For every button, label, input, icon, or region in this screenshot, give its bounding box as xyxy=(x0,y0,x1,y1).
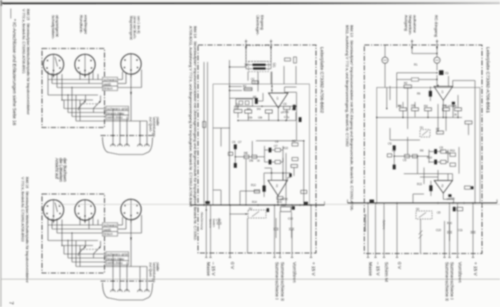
svg-text:+ 15 V: + 15 V xyxy=(473,262,478,277)
capacitor C5 xyxy=(255,98,258,104)
stage2 coupling rows xyxy=(387,142,459,174)
svg-text:15k: 15k xyxy=(249,159,254,163)
footnote rule xyxy=(10,9,12,19)
svg-text:braun: braun xyxy=(104,87,113,91)
svg-text:C3: C3 xyxy=(234,106,238,110)
svg-text:aufnahme: aufnahme xyxy=(413,15,418,34)
svg-text:R10: R10 xyxy=(283,146,288,150)
op-amp N2 xyxy=(265,168,292,206)
R12 feedback xyxy=(263,186,266,192)
R13 feedback xyxy=(429,185,432,191)
svg-text:R7: R7 xyxy=(436,127,440,131)
scan top edge line xyxy=(0,2,500,4)
svg-text:R12: R12 xyxy=(251,183,256,187)
svg-text:C13: C13 xyxy=(288,217,293,221)
internal screen partition xyxy=(229,60,231,205)
row below opamp2 xyxy=(254,190,260,193)
feedback loop N2 wire xyxy=(404,173,453,175)
svg-text:R2: R2 xyxy=(243,84,247,88)
svg-text:C7: C7 xyxy=(440,149,444,153)
svg-text:R8: R8 xyxy=(244,151,248,155)
svg-text:C5: C5 xyxy=(392,149,396,153)
svg-text:R11: R11 xyxy=(446,151,451,155)
svg-text:R16: R16 xyxy=(447,221,452,225)
svg-text:C1: C1 xyxy=(445,71,449,75)
svg-text:B511, Ausführung V 772 a, und: B511, Ausführung V 772 a, und Begrenzere… xyxy=(345,25,350,147)
scan fold line xyxy=(0,278,500,280)
svg-text:schwarz: schwarz xyxy=(104,78,117,82)
svg-text:Leiterplatte C73392-A706-B561: Leiterplatte C73392-A706-B561 xyxy=(485,47,490,113)
misc extras xyxy=(376,63,463,233)
misc stage1 extras xyxy=(213,72,296,222)
svg-text:Summenschiene II: Summenschiene II xyxy=(280,262,285,301)
top terminal labels xyxy=(404,15,439,37)
svg-text:R6: R6 xyxy=(292,108,296,112)
svg-text:10k: 10k xyxy=(258,115,263,119)
svg-text:1: 1 xyxy=(277,97,279,101)
svg-text:R10: R10 xyxy=(427,156,432,160)
C1 input cap xyxy=(437,70,449,86)
svg-text:C6: C6 xyxy=(403,158,407,162)
svg-text:+ 15 V: + 15 V xyxy=(311,262,316,277)
svg-text:Ü1: Ü1 xyxy=(272,63,276,67)
resistor R1 xyxy=(285,58,291,61)
terminal drops xyxy=(367,200,475,258)
svg-text:verbindungs-: verbindungs- xyxy=(152,117,156,139)
left rail xyxy=(203,62,205,205)
svg-text:abspielgerät: abspielgerät xyxy=(55,15,60,38)
scan left edge xyxy=(0,0,2,307)
svg-text:0 V: 0 V xyxy=(397,262,402,270)
wires Bild 15 xyxy=(48,70,142,122)
svg-text:2: 2 xyxy=(276,184,278,188)
0V rail xyxy=(348,200,498,204)
svg-text:Summenschiene I: Summenschiene I xyxy=(275,262,280,300)
terminal drops xyxy=(205,201,312,257)
mid rail xyxy=(397,72,437,74)
svg-text:C8: C8 xyxy=(275,140,279,144)
svg-text:Schirm M: Schirm M xyxy=(384,262,389,282)
svg-text:22k: 22k xyxy=(248,115,253,119)
svg-text:empfänger: empfänger xyxy=(84,15,89,35)
inner shield rectangle xyxy=(377,88,480,204)
op-amp N1 xyxy=(269,72,297,141)
svg-text:µA709: µA709 xyxy=(447,197,455,201)
svg-text:R6: R6 xyxy=(417,92,421,96)
stage1 vertical feeds xyxy=(257,72,259,92)
wire bus stage1 xyxy=(377,117,462,119)
svg-text:Schallplatten-: Schallplatten- xyxy=(51,15,56,40)
dash-dot border box Bild 14 xyxy=(198,45,316,253)
terminals with arrows xyxy=(411,40,439,57)
svg-text:Bild 15 Stromlaufplan Wahlsc: Bild 15 Stromlaufplan Wahlschalterplatte… xyxy=(26,9,30,115)
svg-text:R13: R13 xyxy=(417,182,422,186)
svg-text:RC-Eingang: RC-Eingang xyxy=(434,15,439,37)
R6 feedback xyxy=(429,91,432,97)
svg-text:A706-B311, Ausführung V 772 b,: A706-B311, Ausführung V 772 b, und Begre… xyxy=(189,26,194,208)
stage1 component row xyxy=(234,102,302,122)
svg-text:0 V: 0 V xyxy=(230,262,235,270)
svg-text:Bild 16 Stromlaufplan Wahlsc: Bild 16 Stromlaufplan Wahlschalterplatte… xyxy=(25,177,29,283)
svg-text:2: 2 xyxy=(442,184,444,188)
reuse of Bild15 core shifted down xyxy=(42,194,160,300)
input wires with arrows xyxy=(245,40,273,65)
labels above sockets xyxy=(51,15,141,40)
capacitor C4 xyxy=(294,57,297,63)
svg-text:R14: R14 xyxy=(252,200,257,204)
svg-text:S2: S2 xyxy=(416,207,420,211)
0V rail xyxy=(191,202,325,206)
terminal labels xyxy=(368,262,478,301)
svg-text:V 772 b, Bestell-Nr. C73392-A7: V 772 b, Bestell-Nr. C73392-A706-B922 xyxy=(20,177,24,242)
svg-text:R3: R3 xyxy=(247,107,251,111)
resistor R11 xyxy=(291,165,298,168)
input jack circle xyxy=(434,53,440,71)
dash-dot border box Bild 15 xyxy=(42,49,105,128)
svg-text:C12: C12 xyxy=(216,218,221,222)
svg-text:der Buchsen: der Buchsen xyxy=(63,158,68,182)
capacitor C14 xyxy=(203,122,206,128)
svg-text:platte: platte xyxy=(156,117,160,126)
svg-text:Abschirmung: Abschirmung xyxy=(200,212,204,230)
svg-text:1: 1 xyxy=(442,90,444,94)
svg-text:C7: C7 xyxy=(274,144,278,148)
svg-text:R4: R4 xyxy=(257,107,261,111)
below-rail components xyxy=(217,202,309,253)
svg-text:Magnetton-: Magnetton- xyxy=(408,15,413,36)
svg-text:R1: R1 xyxy=(414,63,418,67)
svg-text:* IC-Anschlüsse und Erläuterun: * IC-Anschlüsse und Erläuterungen siehe … xyxy=(11,19,17,126)
svg-text:– 15 V: – 15 V xyxy=(376,262,381,276)
stage1 component row xyxy=(398,102,462,117)
svg-text:Masse: Masse xyxy=(206,262,211,276)
wire supply bus xyxy=(234,105,296,107)
dash-dot border box Bild 13 xyxy=(364,45,482,254)
op-amp N1 xyxy=(434,76,475,203)
svg-text:1µ: 1µ xyxy=(398,104,401,108)
svg-text:Summenschiene II: Summenschiene II xyxy=(445,262,450,301)
svg-text:C6: C6 xyxy=(232,140,236,144)
capacitor C2 xyxy=(252,81,259,84)
svg-text:Masse: Masse xyxy=(368,262,373,276)
svg-text:(eine der Buch-: (eine der Buch- xyxy=(133,16,137,39)
feedback loop N2 wire xyxy=(264,172,291,174)
svg-text:Magnettongerät: Magnettongerät xyxy=(129,16,133,40)
svg-text:C5: C5 xyxy=(283,102,287,106)
svg-text:1µ: 1µ xyxy=(236,102,239,106)
svg-text:C5: C5 xyxy=(388,142,392,146)
svg-text:Summenschiene I: Summenschiene I xyxy=(450,262,455,300)
svg-text:weiß: weiß xyxy=(104,82,112,86)
R2 row on shield top xyxy=(404,85,412,88)
op-amp N2 xyxy=(434,170,453,203)
svg-text:7: 7 xyxy=(8,302,14,305)
svg-text:zur Quer-: zur Quer- xyxy=(149,117,153,133)
svg-text:4,7µ: 4,7µ xyxy=(284,115,290,119)
transformer U1 xyxy=(245,46,276,86)
svg-text:C11: C11 xyxy=(458,228,463,232)
svg-text:– 15 V: – 15 V xyxy=(211,262,216,276)
svg-text:Abschirmung: Abschirmung xyxy=(364,214,368,232)
connector tub (view of solder side) xyxy=(101,109,160,155)
below-rail components xyxy=(416,207,476,253)
svg-text:C10: C10 xyxy=(436,228,441,232)
svg-text:C9: C9 xyxy=(437,211,441,215)
svg-text:V 772 a, Bestell-Nr. C73392-A7: V 772 a, Bestell-Nr. C73392-A706-B921 xyxy=(21,9,25,74)
DIN socket Bu3 xyxy=(121,54,141,78)
svg-text:R9: R9 xyxy=(292,139,296,143)
svg-text:C7: C7 xyxy=(238,140,242,144)
svg-text:Übertrager-: Übertrager- xyxy=(256,15,261,36)
svg-text:R5: R5 xyxy=(253,95,257,99)
svg-text:Ausgang: Ausgang xyxy=(404,15,409,31)
wire colour labels schwarz-gruen/braun-blau/weiss-blau xyxy=(106,106,129,119)
input terminal labels xyxy=(256,15,265,36)
svg-text:Rundfunk-: Rundfunk- xyxy=(79,15,84,34)
svg-text:sen 1 bis 8): sen 1 bis 8) xyxy=(136,16,140,34)
svg-text:schwarz-grün: schwarz-grün xyxy=(107,107,129,111)
output diamond xyxy=(382,45,437,88)
switch row xyxy=(408,88,453,137)
svg-text:R4: R4 xyxy=(424,104,428,108)
DIN socket Bu2 xyxy=(75,54,95,78)
inner shield rectangle xyxy=(213,84,310,205)
svg-text:R9: R9 xyxy=(420,149,424,153)
svg-text:Eingang: Eingang xyxy=(260,15,265,30)
svg-text:22k: 22k xyxy=(411,104,416,108)
svg-text:R2: R2 xyxy=(404,81,408,85)
svg-text:C2: C2 xyxy=(251,77,255,81)
relay K1 xyxy=(236,99,253,106)
svg-text:µA709: µA709 xyxy=(447,104,455,108)
svg-text:R11: R11 xyxy=(450,149,455,153)
svg-text:Vorröhren: Vorröhren xyxy=(458,262,463,283)
svg-text:C11: C11 xyxy=(281,203,286,207)
R1 xyxy=(412,78,419,81)
svg-text:braun-blau: braun-blau xyxy=(107,111,124,115)
coupling row stage2 xyxy=(228,139,306,206)
svg-text:Leiterplatte C73392-A706-B602: Leiterplatte C73392-A706-B602 xyxy=(320,47,325,113)
terminal labels xyxy=(206,262,316,301)
svg-text:S1: S1 xyxy=(420,126,424,130)
svg-text:Vorröhren: Vorröhren xyxy=(292,262,297,283)
svg-text:µA709: µA709 xyxy=(281,110,289,114)
DIN socket Bu1 xyxy=(43,54,63,78)
wire colour labels schwarz/weiss/braun xyxy=(103,77,118,90)
svg-text:S1: S1 xyxy=(249,207,253,211)
